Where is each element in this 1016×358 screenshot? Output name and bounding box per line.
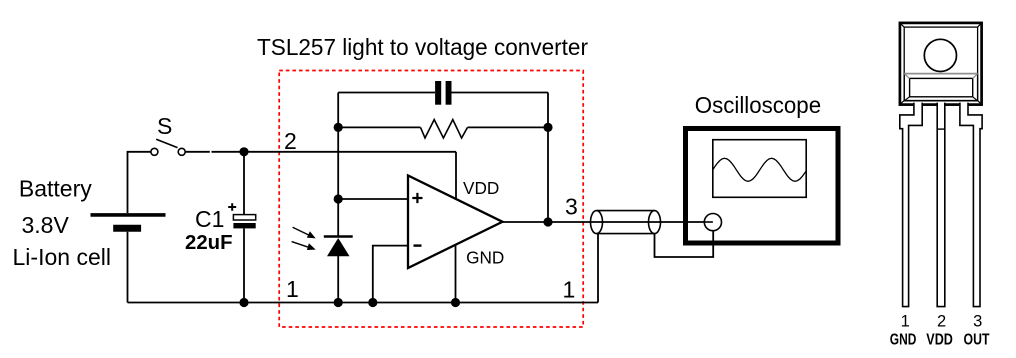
svg-text:2: 2 <box>284 128 297 154</box>
package bevel corner BR <box>977 100 981 104</box>
svg-text:VDD: VDD <box>463 178 499 198</box>
feedback capacitor plates <box>435 81 441 105</box>
wire feedback left vertical <box>337 93 339 237</box>
ground rail wire (pin 1 net) <box>128 302 599 304</box>
junction node op-amp ground <box>451 298 460 307</box>
svg-text:VDD: VDD <box>926 332 953 349</box>
wire ground rise to coax shield <box>597 234 599 303</box>
photodiode D1 cathode bar <box>324 235 353 238</box>
package inner bevel frame <box>904 27 977 100</box>
coax cable right ellipse <box>649 211 661 234</box>
junction node switch/C1 <box>239 147 248 156</box>
package window outer rect <box>904 74 977 101</box>
junction node plus input / photodiode <box>334 194 343 203</box>
capacitor C1 plates <box>233 215 255 220</box>
package window bevel TL <box>904 74 909 79</box>
svg-text:22uF: 22uF <box>185 232 233 254</box>
package outer case <box>900 23 982 105</box>
plus sign of C1 <box>228 203 236 211</box>
junction node photodiode ground <box>334 298 343 307</box>
package window bevel BR <box>973 97 978 101</box>
package window bevel TR <box>973 74 978 79</box>
oscilloscope sine trace <box>713 158 806 181</box>
wire resistor rail left <box>338 126 420 128</box>
oscilloscope box <box>686 129 839 244</box>
svg-text:Oscilloscope: Oscilloscope <box>695 92 821 118</box>
photodiode D1 light arrows <box>293 227 311 236</box>
svg-text:OUT: OUT <box>964 332 990 349</box>
wire battery bottom to ground rail <box>127 232 129 303</box>
package window inner rect <box>910 78 973 96</box>
package lens circle <box>924 39 956 71</box>
wire feedback right vertical <box>547 93 549 223</box>
svg-text:1: 1 <box>563 276 576 302</box>
svg-text:S: S <box>157 113 172 139</box>
junction node minus input ground <box>368 298 377 307</box>
switch S lever <box>156 139 177 147</box>
junction node feedback left / resistor <box>334 123 343 132</box>
probe tip wire into connector <box>704 221 713 223</box>
wire feedback top (capacitor branch) <box>338 92 435 94</box>
svg-text:3.8V: 3.8V <box>22 212 70 238</box>
dashed boundary box of TSL257 <box>279 71 583 328</box>
coax cable shield top line <box>597 210 655 212</box>
svg-text:C1: C1 <box>195 206 224 232</box>
svg-text:3: 3 <box>565 193 578 219</box>
oscilloscope screen <box>713 140 806 198</box>
package bevel corner BL <box>901 100 905 104</box>
svg-text:GND: GND <box>466 247 504 267</box>
wire C1 top lead <box>243 152 245 215</box>
op-amp plus sign <box>412 193 422 203</box>
op-amp minus sign <box>414 244 422 246</box>
package leg 3 <box>960 103 982 307</box>
wire VDD drop to op-amp top <box>455 152 457 199</box>
junction node output / feedback <box>543 217 552 226</box>
svg-text:TSL257 light to voltage conver: TSL257 light to voltage converter <box>257 34 588 60</box>
wire output (pin 3 net) <box>503 221 705 223</box>
package bevel corner TL <box>901 24 905 28</box>
svg-text:3: 3 <box>973 313 982 331</box>
wire plus input <box>338 198 408 200</box>
svg-text:2: 2 <box>937 313 946 331</box>
wire resistor rail right <box>468 126 549 128</box>
junction node C1 ground <box>239 298 248 307</box>
probe input connector circle <box>704 214 721 231</box>
wire minus input with ground drop <box>373 246 408 303</box>
svg-text:Battery: Battery <box>19 176 92 202</box>
coax cable shield bottom line <box>597 233 655 235</box>
svg-text:GND: GND <box>890 332 917 349</box>
svg-text:1: 1 <box>901 313 910 331</box>
photodiode D1 triangle <box>327 238 350 256</box>
junction node feedback right / resistor <box>543 123 552 132</box>
package leg 1 <box>900 103 922 307</box>
battery B1 plates <box>91 213 166 217</box>
op-amp U1 triangle <box>408 176 503 269</box>
feedback resistor zigzag <box>421 120 468 138</box>
wire op-amp GND drop <box>455 245 457 303</box>
svg-text:1: 1 <box>286 276 299 302</box>
coax cable left ellipse <box>591 211 603 234</box>
wire switch to VDD line (pin 2 net) <box>185 151 210 153</box>
svg-text:Li-Ion cell: Li-Ion cell <box>13 244 112 270</box>
package leg 2 <box>937 103 945 307</box>
package window bevel BL <box>904 97 909 101</box>
wire C1 bottom lead <box>243 228 245 302</box>
package leg 2 shoulder <box>937 128 945 130</box>
package bevel corner TR <box>977 24 981 28</box>
wire battery top to switch <box>128 152 151 213</box>
package window top gray line <box>904 73 977 75</box>
wire coax shield to probe ground <box>655 231 714 257</box>
switch S contacts <box>151 148 158 155</box>
